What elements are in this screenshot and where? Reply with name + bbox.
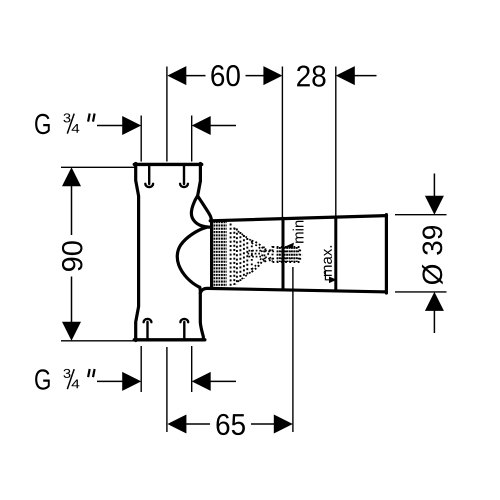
text 60	[211, 65, 239, 86]
max division line	[334, 217, 337, 291]
hook top-right	[180, 166, 188, 188]
max text	[324, 246, 332, 276]
arrow 65 right	[274, 415, 293, 434]
min division line	[282, 218, 285, 289]
stem outline	[273, 247, 300, 262]
ext line d39 top	[395, 214, 447, 216]
body top edge	[134, 163, 201, 166]
body right side lower	[200, 287, 204, 339]
ext line axis top	[166, 67, 168, 162]
center cluster rows	[248, 251, 263, 257]
ext line axis bottom	[166, 347, 168, 432]
neck cross lines	[264, 247, 273, 262]
ext line 90 bottom	[61, 340, 135, 342]
body right bump	[177, 227, 206, 287]
hook top-left	[145, 166, 153, 188]
ext line min top	[281, 67, 283, 218]
cylinder end face	[385, 215, 388, 293]
ext line G3/4 top left	[140, 116, 142, 162]
arrow 65 left	[167, 415, 186, 434]
ext line G3/4 bottom left	[140, 346, 142, 392]
cone edges	[234, 229, 251, 285]
arrow 90 up	[62, 167, 81, 186]
teardrop transition upper	[191, 196, 211, 227]
arrow d39 down	[425, 196, 444, 215]
max leader	[325, 272, 329, 280]
d39 bottom tail	[433, 311, 435, 334]
arrow 60 right	[263, 66, 282, 85]
neck lines	[265, 249, 274, 262]
ext line max top	[335, 67, 337, 216]
arrow G3/4 top right	[192, 116, 211, 135]
d39 top tail	[433, 174, 435, 197]
stem knurl	[278, 247, 297, 262]
text d39 rotated	[422, 226, 443, 284]
arrow G3/4 bottom left	[122, 372, 141, 391]
cartridge flange columns	[234, 228, 237, 286]
dim 28 tail	[355, 75, 377, 77]
dim 60 shafts	[186, 75, 265, 77]
body bottom edge	[134, 338, 205, 341]
text 90 rotated	[62, 241, 83, 271]
dim 90 shafts	[71, 186, 73, 322]
cylinder bottom edge with fillet	[200, 288, 386, 293]
ext line 65 right	[292, 267, 294, 432]
arrow G3/4 bottom right	[192, 372, 211, 391]
cartridge body arc	[252, 241, 265, 273]
cartridge body chord	[251, 241, 253, 272]
body left side	[136, 164, 139, 341]
dotted column	[230, 224, 232, 287]
dense thread band	[214, 221, 227, 287]
arrow 60 left	[167, 66, 186, 85]
G3/4 top right tail	[211, 125, 237, 127]
arrow G3/4 top left	[122, 116, 141, 135]
cone arcs	[239, 232, 241, 281]
text 65	[217, 414, 245, 435]
min text	[293, 221, 304, 243]
ext line 90 top	[61, 166, 135, 168]
arrow 90 down	[62, 322, 81, 341]
G3/4 bottom right tail	[211, 380, 237, 382]
cartridge body arc inner twin	[252, 243, 263, 270]
min leader arrow	[285, 243, 295, 249]
body right side upper	[198, 164, 201, 196]
arrow d39 up	[425, 292, 444, 311]
max leader arrow	[329, 277, 337, 284]
hook bottom-right	[180, 319, 188, 338]
stem tip dots	[300, 251, 304, 259]
cylinder left edge	[210, 221, 213, 288]
G3/4 top leader	[97, 125, 123, 127]
hook bottom-left	[144, 319, 152, 338]
ext line G3/4 top right	[191, 116, 193, 162]
G3/4 bottom leader	[97, 380, 123, 382]
ext line d39 bottom	[395, 291, 447, 293]
text G 3/4 bottom	[35, 369, 50, 390]
stem shaft lines	[264, 252, 299, 259]
dim 65 shafts	[186, 423, 274, 425]
arrow 28 right	[336, 66, 355, 85]
cylinder top edge	[210, 216, 386, 221]
text 28	[297, 65, 325, 86]
text G 3/4 top	[35, 114, 50, 135]
ext line G3/4 bottom right	[191, 346, 193, 392]
